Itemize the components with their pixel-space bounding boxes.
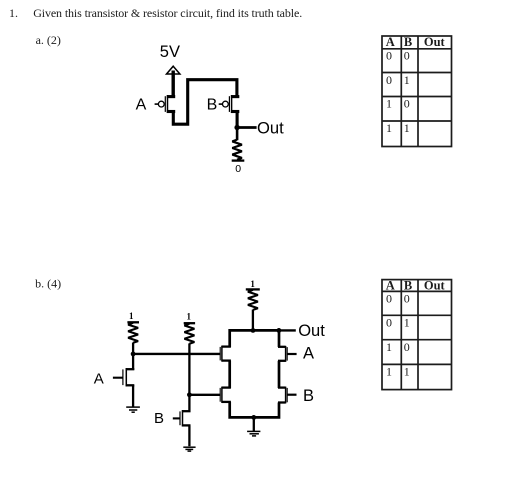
transistor Q3 (NMOS, input A) — [113, 368, 134, 386]
wire Out node to label — [237, 126, 257, 129]
title text — [9, 6, 302, 290]
wire bridge top rail — [230, 330, 279, 347]
svg-text:1: 1 — [386, 340, 392, 354]
svg-text:1: 1 — [404, 73, 410, 87]
svg-text:Out: Out — [257, 118, 284, 137]
svg-text:0: 0 — [386, 316, 392, 330]
resistor R3 — [184, 323, 195, 343]
svg-text:a. (2): a. (2) — [36, 33, 61, 47]
svg-text:1: 1 — [386, 121, 392, 135]
wire Q2 source to Out node — [236, 110, 239, 128]
wire to ground (bridge) — [253, 417, 255, 431]
wire N2 to Q6 gate — [189, 394, 220, 396]
svg-text:0: 0 — [386, 73, 392, 87]
svg-text:A: A — [386, 35, 395, 49]
resistor R4 — [246, 289, 260, 309]
node top rail / Out — [277, 328, 282, 333]
svg-text:0: 0 — [404, 49, 410, 63]
wire bridge bottom rail — [230, 402, 279, 418]
transistor Q4 (NMOS, input B) — [173, 410, 191, 426]
wire Q3 source to ground — [132, 385, 134, 407]
svg-text:0: 0 — [386, 292, 392, 306]
svg-text:A: A — [94, 370, 104, 387]
svg-text:Given this transistor & resist: Given this transistor & resistor circuit… — [33, 6, 302, 20]
transistor Q1 (PMOS, input A) — [155, 95, 176, 113]
node N2 — [187, 392, 192, 397]
wire Q7 source to Q8 drain — [278, 361, 281, 388]
wire Q4 source to ground — [188, 425, 190, 446]
svg-text:B: B — [404, 35, 412, 49]
ground (Q4) — [183, 447, 195, 451]
svg-text:1: 1 — [250, 279, 255, 289]
svg-text:B: B — [207, 96, 218, 113]
wire N1 to Q3 drain — [132, 354, 134, 370]
node Out junction — [234, 125, 239, 130]
transistor Q2 (PMOS, input B) — [219, 95, 240, 113]
transistor Q5 (bridge upper-left) — [220, 346, 231, 362]
resistor R1 — [232, 140, 242, 160]
wire N2 to Q4 drain — [188, 395, 190, 412]
svg-text:1: 1 — [129, 311, 134, 321]
svg-text:A: A — [386, 278, 395, 292]
svg-text:B: B — [404, 278, 412, 292]
svg-text:0: 0 — [404, 97, 410, 111]
transistor Q8 (bridge lower-right, input B) — [278, 387, 297, 404]
transistor Q7 (bridge upper-right, input A) — [278, 346, 297, 362]
svg-text:0: 0 — [386, 49, 392, 63]
wire N1 to Q5 gate — [133, 353, 221, 355]
wire Out lead — [279, 329, 296, 331]
svg-text:0: 0 — [404, 292, 410, 306]
wire R2 to node N1 — [132, 343, 134, 355]
power symbol VDD arrow — [167, 66, 180, 74]
wire Q5 source to Q6 drain — [228, 361, 231, 388]
wire R3 to node N2 (crosses N1 wire) — [188, 343, 190, 395]
svg-text:0: 0 — [235, 163, 241, 175]
wire R4 to top rail — [252, 310, 254, 331]
svg-text:1: 1 — [386, 365, 392, 379]
resistor R2 — [127, 322, 139, 342]
wire VDD to Q1 drain — [171, 71, 174, 98]
svg-text:5V: 5V — [160, 43, 180, 61]
transistor Q6 (bridge lower-left) — [220, 387, 231, 403]
svg-text:0: 0 — [404, 340, 410, 354]
node N1 — [131, 352, 136, 357]
svg-text:Out: Out — [424, 278, 446, 292]
svg-text:1: 1 — [404, 121, 410, 135]
wire Out node to resistor R1 — [236, 128, 239, 141]
svg-text:B: B — [154, 410, 164, 427]
svg-text:b. (4): b. (4) — [35, 277, 61, 291]
wire Q1 source to Q2 drain — [173, 80, 237, 125]
svg-text:B: B — [303, 387, 314, 405]
node top rail / R4 — [251, 328, 256, 333]
ground 0 bar — [232, 159, 245, 161]
svg-text:Out: Out — [298, 322, 325, 340]
svg-text:Out: Out — [424, 35, 446, 49]
svg-text:A: A — [303, 344, 314, 362]
svg-text:1: 1 — [386, 97, 392, 111]
svg-text:1: 1 — [404, 316, 410, 330]
wire top rail to Q7 drain — [278, 330, 281, 347]
svg-text:A: A — [136, 96, 147, 113]
node bottom rail / ground — [251, 415, 256, 420]
ground (bridge) — [247, 431, 260, 436]
svg-text:1: 1 — [187, 312, 192, 322]
svg-text:1.: 1. — [9, 6, 18, 20]
svg-text:1: 1 — [404, 365, 410, 379]
ground (Q3) — [126, 407, 140, 412]
